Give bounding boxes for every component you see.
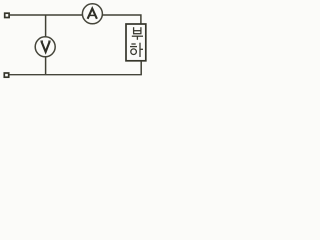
wire voltmeter bottom drop	[45, 57, 47, 75]
wire load bottom drop	[140, 61, 142, 75]
wire bottom horizontal	[9, 74, 142, 76]
terminal T2 bottom-left	[4, 73, 8, 77]
voltmeter U2 circle	[35, 37, 55, 57]
terminal T1 top-left	[5, 13, 9, 17]
load label hangul HA (하) strokes	[130, 43, 143, 57]
load label hangul BU (부) strokes	[132, 27, 143, 40]
ammeter U1 circle	[82, 4, 102, 24]
voltmeter label V	[40, 41, 50, 52]
wire ammeter to right corner	[102, 15, 140, 24]
wire voltmeter top drop	[45, 15, 47, 37]
wire top-left horizontal	[10, 14, 83, 16]
ammeter label A	[88, 9, 97, 19]
load box LD1	[126, 24, 146, 61]
